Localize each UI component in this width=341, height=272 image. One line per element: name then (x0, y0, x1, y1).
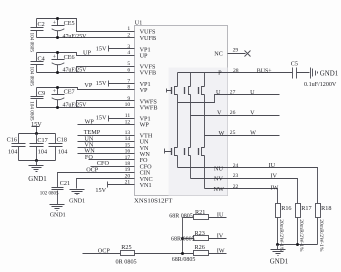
wire pin15 VN (78, 147, 135, 149)
svg-text:47uF/25V: 47uF/25V (63, 34, 88, 40)
svg-text:24: 24 (233, 163, 239, 169)
svg-text:W: W (250, 130, 256, 137)
svg-text:28: 28 (233, 68, 239, 74)
wire pin24 NU / IU to R18 (178, 168, 318, 204)
wire pin22 NW / IW to R16 (205, 189, 278, 204)
15V stub pin7 (96, 80, 135, 87)
svg-text:C16: C16 (7, 136, 17, 143)
capacitor C2 (28, 19, 44, 53)
svg-text:104 0805: 104 0805 (28, 67, 34, 87)
ground GND1 on VNC (69, 190, 85, 205)
transistor Q bottom-mid (V low side) (185, 148, 191, 179)
svg-text:FO: FO (85, 154, 93, 161)
svg-text:R18: R18 (321, 205, 331, 212)
resistor R17 shunt (296, 204, 312, 252)
svg-text:WP: WP (85, 119, 95, 126)
wire pin18 CFO (91, 166, 135, 168)
wire pin5 VVFS step (77, 67, 135, 73)
capacitor CE7 electrolytic (52, 86, 88, 109)
svg-text:UP: UP (83, 50, 91, 57)
svg-text:104 0805: 104 0805 (28, 101, 34, 121)
svg-text:R25: R25 (121, 244, 131, 251)
svg-text:GND1: GND1 (69, 198, 85, 204)
capacitor C17 (30, 134, 48, 161)
IC U1 body XNS10S12FT (134, 21, 228, 205)
svg-text:P: P (218, 70, 222, 77)
ground GND1 under C21 (50, 205, 66, 219)
ground GND1 shunt (270, 245, 289, 266)
wire pin13 TEMP (78, 135, 135, 137)
node bus R21/R23 junction (182, 218, 184, 254)
wire pin23 NV / IV to R17 (191, 179, 298, 204)
svg-text:GND1: GND1 (270, 259, 289, 266)
node 15V top bus (19, 133, 56, 135)
svg-text:102 0805: 102 0805 (40, 192, 59, 197)
svg-text:C4: C4 (38, 55, 45, 62)
svg-text:3: 3 (127, 44, 130, 50)
svg-text:IU: IU (269, 162, 276, 169)
15V stub pin21 VN1 (95, 182, 134, 195)
wire OCP bottom net (83, 253, 121, 255)
svg-text:W: W (219, 130, 225, 137)
svg-text:+: + (53, 54, 57, 61)
svg-text:68R/0805: 68R/0805 (171, 236, 195, 242)
svg-text:15V: 15V (95, 187, 106, 194)
svg-text:22: 22 (233, 184, 239, 190)
gate stub bottom row (165, 149, 172, 154)
node shunt bottom bus (278, 244, 318, 246)
svg-text:15V: 15V (96, 45, 107, 52)
wire pin19 CIN / OCP net (58, 173, 135, 188)
capacitor CE6 electrolytic (52, 51, 88, 74)
svg-text:C21: C21 (60, 180, 70, 187)
capacitor C16 (7, 134, 26, 161)
svg-text:U1: U1 (135, 21, 142, 27)
svg-text:NU: NU (214, 165, 223, 172)
svg-text:VWFB: VWFB (140, 105, 158, 112)
pin numbers left (125, 26, 131, 186)
svg-text:68R/0805: 68R/0805 (172, 257, 196, 263)
svg-text:20mR/2W-1%: 20mR/2W-1% (318, 219, 324, 252)
svg-text:U: U (216, 89, 221, 96)
svg-text:104: 104 (8, 148, 17, 155)
resistor R16 shunt (276, 204, 292, 252)
svg-text:104: 104 (38, 148, 47, 155)
svg-text:C17: C17 (37, 137, 47, 144)
svg-text:GND1: GND1 (320, 70, 339, 77)
svg-text:C2: C2 (38, 21, 45, 28)
svg-text:UP: UP (140, 53, 148, 60)
svg-text:20mR/2W-1%: 20mR/2W-1% (278, 219, 284, 252)
svg-text:IW: IW (217, 248, 225, 255)
svg-text:R21: R21 (195, 209, 205, 216)
capacitor CE5 electrolytic (52, 17, 88, 40)
svg-text:47uF/25V: 47uF/25V (63, 103, 88, 109)
capacitor C4 (28, 53, 44, 87)
svg-text:68R 0805: 68R 0805 (169, 213, 193, 219)
svg-text:V: V (250, 109, 255, 116)
svg-text:23: 23 (233, 173, 239, 179)
wire pin10 VWFB group3 bottom rail (37, 107, 135, 109)
svg-text:V: V (217, 110, 222, 117)
svg-text:VN1: VN1 (140, 182, 152, 189)
svg-text:R17: R17 (301, 205, 311, 212)
wire pin6 VVFB group2 bottom rail (37, 72, 135, 74)
svg-text:15V: 15V (96, 115, 107, 122)
svg-text:29: 29 (233, 48, 239, 54)
svg-text:R23: R23 (195, 230, 205, 237)
transistor Q top-right (W phase high side) (199, 73, 205, 148)
svg-text:R16: R16 (281, 205, 291, 212)
wire pin9 VWFS step (77, 101, 135, 108)
wire pin14 UN (78, 141, 135, 143)
wire pin17 FO (89, 159, 135, 161)
svg-text:XNS10S12FT: XNS10S12FT (134, 197, 172, 204)
wire pin12 WP stub (78, 124, 135, 126)
svg-text:+: + (53, 88, 57, 95)
inner bridge shaded box (169, 68, 228, 196)
svg-text:BUS+: BUS+ (257, 68, 272, 74)
svg-text:CE7: CE7 (64, 88, 75, 95)
svg-text:+: + (53, 20, 57, 27)
ground GND1 sideways at C5 (311, 68, 339, 79)
wire pin2 VUFB group1 bottom rail (37, 37, 135, 39)
svg-text:R26: R26 (195, 244, 205, 251)
svg-text:104: 104 (58, 148, 67, 155)
svg-text:OCP: OCP (86, 166, 99, 173)
svg-text:NV: NV (214, 176, 223, 183)
wire pin26 V output (191, 115, 280, 117)
15V feed left column (31, 121, 42, 134)
gate stub VP top row (167, 89, 172, 93)
svg-text:VUFB: VUFB (140, 35, 157, 42)
svg-text:27: 27 (230, 89, 236, 95)
svg-text:20mR/2W-1%: 20mR/2W-1% (298, 219, 304, 252)
svg-text:104 0805: 104 0805 (28, 33, 34, 53)
svg-text:VVFB: VVFB (140, 70, 157, 77)
capacitor C18 (49, 134, 68, 161)
svg-text:U: U (250, 89, 255, 96)
node bottom bus (19, 160, 56, 162)
svg-text:C9: C9 (38, 90, 45, 97)
svg-text:0.1uF/1200V: 0.1uF/1200V (304, 82, 337, 88)
wire pin20 VNC to ground (77, 179, 135, 189)
svg-text:VP: VP (140, 87, 148, 94)
ground GND1 left column (28, 161, 47, 183)
wire pin25 W output (205, 135, 280, 137)
resistor R26 (172, 244, 227, 263)
resistor R23 (171, 230, 227, 243)
svg-text:0R 0805: 0R 0805 (116, 259, 137, 266)
15V stub pin3 (96, 45, 135, 52)
svg-text:26: 26 (230, 110, 236, 116)
svg-text:OCP: OCP (98, 247, 111, 254)
wire pin29 NC with no-connect X (214, 48, 250, 58)
svg-text:C18: C18 (57, 136, 67, 143)
capacitor C9 (28, 88, 45, 122)
svg-text:GND1: GND1 (28, 176, 47, 183)
svg-text:IU: IU (217, 211, 224, 218)
svg-text:NW: NW (214, 186, 224, 193)
resistor R25 (116, 244, 194, 266)
svg-text:9: 9 (127, 96, 130, 102)
svg-text:IV: IV (217, 233, 224, 240)
transistor Q top-mid (V phase high side) (185, 73, 191, 148)
svg-text:NC: NC (214, 51, 223, 58)
node P rail / pin28 BUS+ wire (178, 72, 293, 74)
svg-text:47uF/25V: 47uF/25V (63, 68, 88, 74)
svg-text:CE6: CE6 (64, 54, 75, 61)
svg-text:15V: 15V (96, 80, 107, 87)
svg-text:IW: IW (271, 184, 279, 191)
transistor Q bottom-right (W low side) (199, 148, 205, 189)
svg-text:GND1: GND1 (50, 213, 66, 219)
svg-text:C5: C5 (291, 61, 298, 68)
resistor R18 shunt (316, 204, 332, 252)
transistor Q bottom-left (U low side) (172, 148, 178, 168)
wire pin1 VUFS from cap group1 (37, 19, 135, 32)
resistor R21 (169, 209, 226, 220)
wire pin16 WN (78, 153, 135, 155)
wire pin4 UP from cap group2 (37, 53, 135, 56)
svg-text:VP: VP (84, 82, 92, 89)
svg-text:25: 25 (230, 130, 236, 136)
capacitor C5 (291, 61, 337, 88)
svg-text:CE5: CE5 (64, 20, 75, 27)
svg-text:IV: IV (271, 173, 278, 180)
pin names left column inside U1 (140, 28, 158, 189)
svg-text:WP: WP (140, 122, 150, 129)
transistor Q top-left (U phase high side) (172, 73, 178, 148)
15V stub pin11 (96, 115, 135, 122)
wire pin27 U output (178, 95, 280, 103)
wire pin8 VP from cap group3 (37, 88, 135, 90)
svg-text:CFO: CFO (97, 160, 110, 167)
capacitor C21 (40, 180, 70, 205)
